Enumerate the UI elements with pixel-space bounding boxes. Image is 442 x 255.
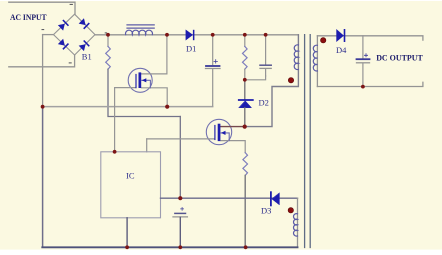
svg-text:B1: B1 <box>82 51 92 61</box>
svg-text:AC INPUT: AC INPUT <box>10 13 47 22</box>
svg-text:D4: D4 <box>336 45 347 55</box>
svg-text:D2: D2 <box>259 98 269 108</box>
svg-text:D1: D1 <box>186 44 196 54</box>
svg-text:D3: D3 <box>261 206 271 216</box>
svg-text:DC OUTPUT: DC OUTPUT <box>376 53 423 62</box>
svg-text:IC: IC <box>126 170 135 180</box>
